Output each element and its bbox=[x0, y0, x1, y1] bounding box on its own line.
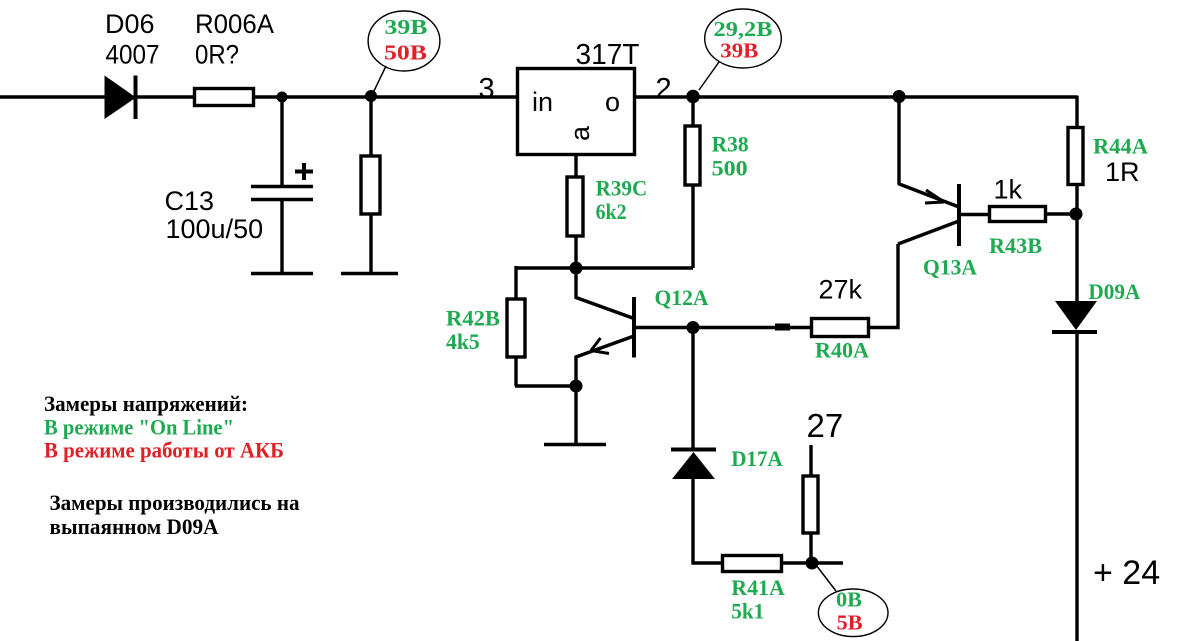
wire D17A bottom lead bbox=[691, 479, 694, 564]
svg-text:6k2: 6k2 bbox=[596, 199, 627, 224]
wire Q12A emitter node to ground bbox=[574, 386, 577, 444]
wire D09A cathode down to bottom edge bbox=[1075, 331, 1078, 641]
wire R41A to node E bbox=[783, 561, 812, 564]
svg-text:27: 27 bbox=[807, 407, 844, 444]
ground under Q12A bbox=[544, 443, 606, 447]
wire 317T adj pin to R39C bbox=[574, 156, 577, 177]
wire R38 bottom lead bbox=[691, 186, 694, 268]
svg-text:D17A: D17A bbox=[731, 446, 783, 471]
transistor Q13A emitter arrow bbox=[925, 190, 944, 203]
wire input rail left bbox=[0, 95, 107, 98]
svg-text:+ 24: + 24 bbox=[1093, 554, 1160, 592]
diode D06 bbox=[105, 76, 137, 120]
svg-text:1R: 1R bbox=[1105, 157, 1140, 187]
wire corner down to R44A bbox=[1075, 96, 1078, 128]
resistor R40A bbox=[812, 319, 869, 337]
label R42B value bbox=[446, 306, 500, 355]
svg-text:0R?: 0R? bbox=[195, 40, 239, 70]
svg-text:2: 2 bbox=[656, 73, 672, 105]
svg-text:317T: 317T bbox=[576, 39, 640, 71]
resistor at node 39V bbox=[361, 156, 380, 214]
svg-text:50В: 50В bbox=[384, 41, 427, 65]
wire node D down to D09A bbox=[1075, 214, 1078, 301]
node dot after R006A bbox=[277, 92, 288, 103]
node dot A below R39C bbox=[570, 262, 583, 275]
wire horizontal node A rail bbox=[516, 266, 693, 269]
svg-text:Замеры производились на: Замеры производились на bbox=[50, 490, 300, 515]
wire R38 top lead bbox=[691, 97, 694, 126]
svg-text:R38: R38 bbox=[712, 132, 749, 157]
transistor Q12A base bar bbox=[632, 297, 636, 358]
svg-text:Замеры напряжений:: Замеры напряжений: bbox=[44, 391, 248, 416]
wire Q13A emitter drop from rail bbox=[897, 97, 900, 184]
wire Q13A emitter diagonal bbox=[898, 184, 959, 208]
svg-text:выпаянном D09A: выпаянном D09A bbox=[50, 514, 219, 539]
label R38 value bbox=[712, 132, 749, 181]
svg-text:in: in bbox=[532, 87, 553, 117]
svg-text:4007: 4007 bbox=[106, 40, 160, 70]
wire C13 bottom lead bbox=[280, 200, 283, 273]
node dot output 2 bbox=[686, 90, 700, 104]
node dot D node bbox=[1070, 208, 1083, 221]
wire R44A bottom lead bbox=[1075, 185, 1078, 214]
wire node39 resistor bottom lead bbox=[369, 214, 372, 273]
wire Q12A emitter diagonal bbox=[576, 336, 634, 386]
svg-text:500: 500 bbox=[712, 156, 748, 181]
svg-text:27k: 27k bbox=[819, 275, 863, 305]
resistor 27 vertical bbox=[803, 476, 818, 533]
svg-text:100u/50: 100u/50 bbox=[166, 214, 264, 244]
svg-text:a: a bbox=[565, 125, 595, 141]
ground bar under node39 resistor bbox=[341, 272, 398, 276]
wire Q12A base lead bbox=[636, 326, 693, 329]
svg-text:R40A: R40A bbox=[815, 338, 869, 363]
wire D17A anode drop from Q12A base node bbox=[691, 328, 694, 450]
wire R43B to node D bbox=[1047, 212, 1077, 215]
svg-text:R44A: R44A bbox=[1093, 134, 1148, 159]
callout ellipse 39V 50V bbox=[368, 11, 440, 93]
wire Q12A collector drop bbox=[576, 268, 634, 319]
svg-text:0В: 0В bbox=[836, 588, 862, 612]
wire R42B bottom lead bbox=[514, 357, 517, 386]
resistor R41A bbox=[723, 556, 782, 572]
wire base node to R40A bbox=[693, 326, 810, 329]
wire D06 cathode to R006A bbox=[136, 95, 196, 98]
wire resistor 27 top lead bbox=[809, 445, 812, 476]
svg-text:39В: 39В bbox=[720, 38, 758, 62]
svg-text:29,2В: 29,2В bbox=[714, 17, 773, 41]
svg-text:3: 3 bbox=[479, 73, 495, 105]
resistor R43B bbox=[990, 207, 1046, 222]
resistor R38 bbox=[685, 126, 700, 185]
wire C13 top lead bbox=[280, 97, 283, 186]
wire Q13A collector diagonal bbox=[898, 221, 959, 244]
wire node E stub right bbox=[812, 561, 843, 564]
svg-text:R006A: R006A bbox=[195, 9, 274, 39]
svg-text:1k: 1k bbox=[994, 175, 1023, 205]
svg-text:R43B: R43B bbox=[989, 233, 1042, 258]
resistor R44A bbox=[1068, 128, 1083, 185]
svg-text:R39C: R39C bbox=[596, 176, 648, 201]
svg-text:C13: C13 bbox=[165, 186, 215, 216]
wire resistor 27 bottom lead bbox=[809, 533, 812, 563]
svg-text:5k1: 5k1 bbox=[731, 599, 764, 624]
svg-text:5В: 5В bbox=[837, 611, 863, 635]
transistor Q12A emitter arrow bbox=[591, 338, 609, 354]
ground bar under C13 bbox=[251, 272, 313, 276]
wire 317T output rail to right corner bbox=[636, 95, 1077, 98]
svg-text:D09A: D09A bbox=[1088, 279, 1140, 304]
diode D17A bbox=[671, 450, 716, 480]
svg-text:o: o bbox=[605, 87, 620, 117]
node dot E node bbox=[806, 557, 819, 570]
wire left drop to R42B bbox=[514, 266, 517, 299]
transistor Q13A base bar bbox=[957, 184, 961, 246]
node dot 39V bbox=[365, 90, 377, 102]
svg-text:39В: 39В bbox=[385, 15, 428, 39]
wire R40A to Q13A collector riser bbox=[870, 244, 898, 328]
capacitor C13 polarity plus bbox=[295, 163, 313, 180]
wire R42B to Q12A emitter node bbox=[515, 384, 575, 387]
diode D09A bbox=[1052, 301, 1097, 332]
resistor R39C bbox=[567, 177, 583, 236]
capacitor C13 plates bbox=[251, 187, 313, 200]
resistor R42B bbox=[507, 299, 525, 357]
wire Q13A base lead bbox=[961, 213, 989, 216]
regulator U1 317T box bbox=[518, 69, 635, 155]
wire node39 resistor top lead bbox=[369, 97, 372, 156]
label R39C value bbox=[596, 176, 648, 225]
wire corner to R41A bbox=[692, 561, 722, 564]
wire R39C to node A bbox=[574, 236, 577, 269]
label R41A value bbox=[731, 575, 785, 624]
node dot Q12A base bbox=[687, 321, 700, 334]
svg-text:R41A: R41A bbox=[731, 575, 785, 600]
svg-text:Q13A: Q13A bbox=[923, 255, 977, 280]
wire R006A to 317T input bbox=[255, 95, 516, 98]
svg-text:R42B: R42B bbox=[446, 306, 500, 331]
svg-text:Q12A: Q12A bbox=[655, 285, 709, 310]
junction dash on base wire bbox=[775, 324, 790, 331]
node dot Q12A emitter bbox=[570, 380, 583, 393]
svg-text:D06: D06 bbox=[105, 9, 155, 39]
svg-text:В режиме работы от АКБ: В режиме работы от АКБ bbox=[44, 438, 284, 463]
resistor R006A bbox=[195, 89, 254, 106]
svg-text:В режиме "On Line": В режиме "On Line" bbox=[44, 414, 234, 439]
svg-text:4k5: 4k5 bbox=[446, 329, 480, 354]
callout ellipse 0V 5V bbox=[816, 565, 888, 637]
node dot Q13A emitter rail bbox=[893, 90, 906, 103]
callout ellipse 29.2V 39V bbox=[699, 9, 781, 90]
